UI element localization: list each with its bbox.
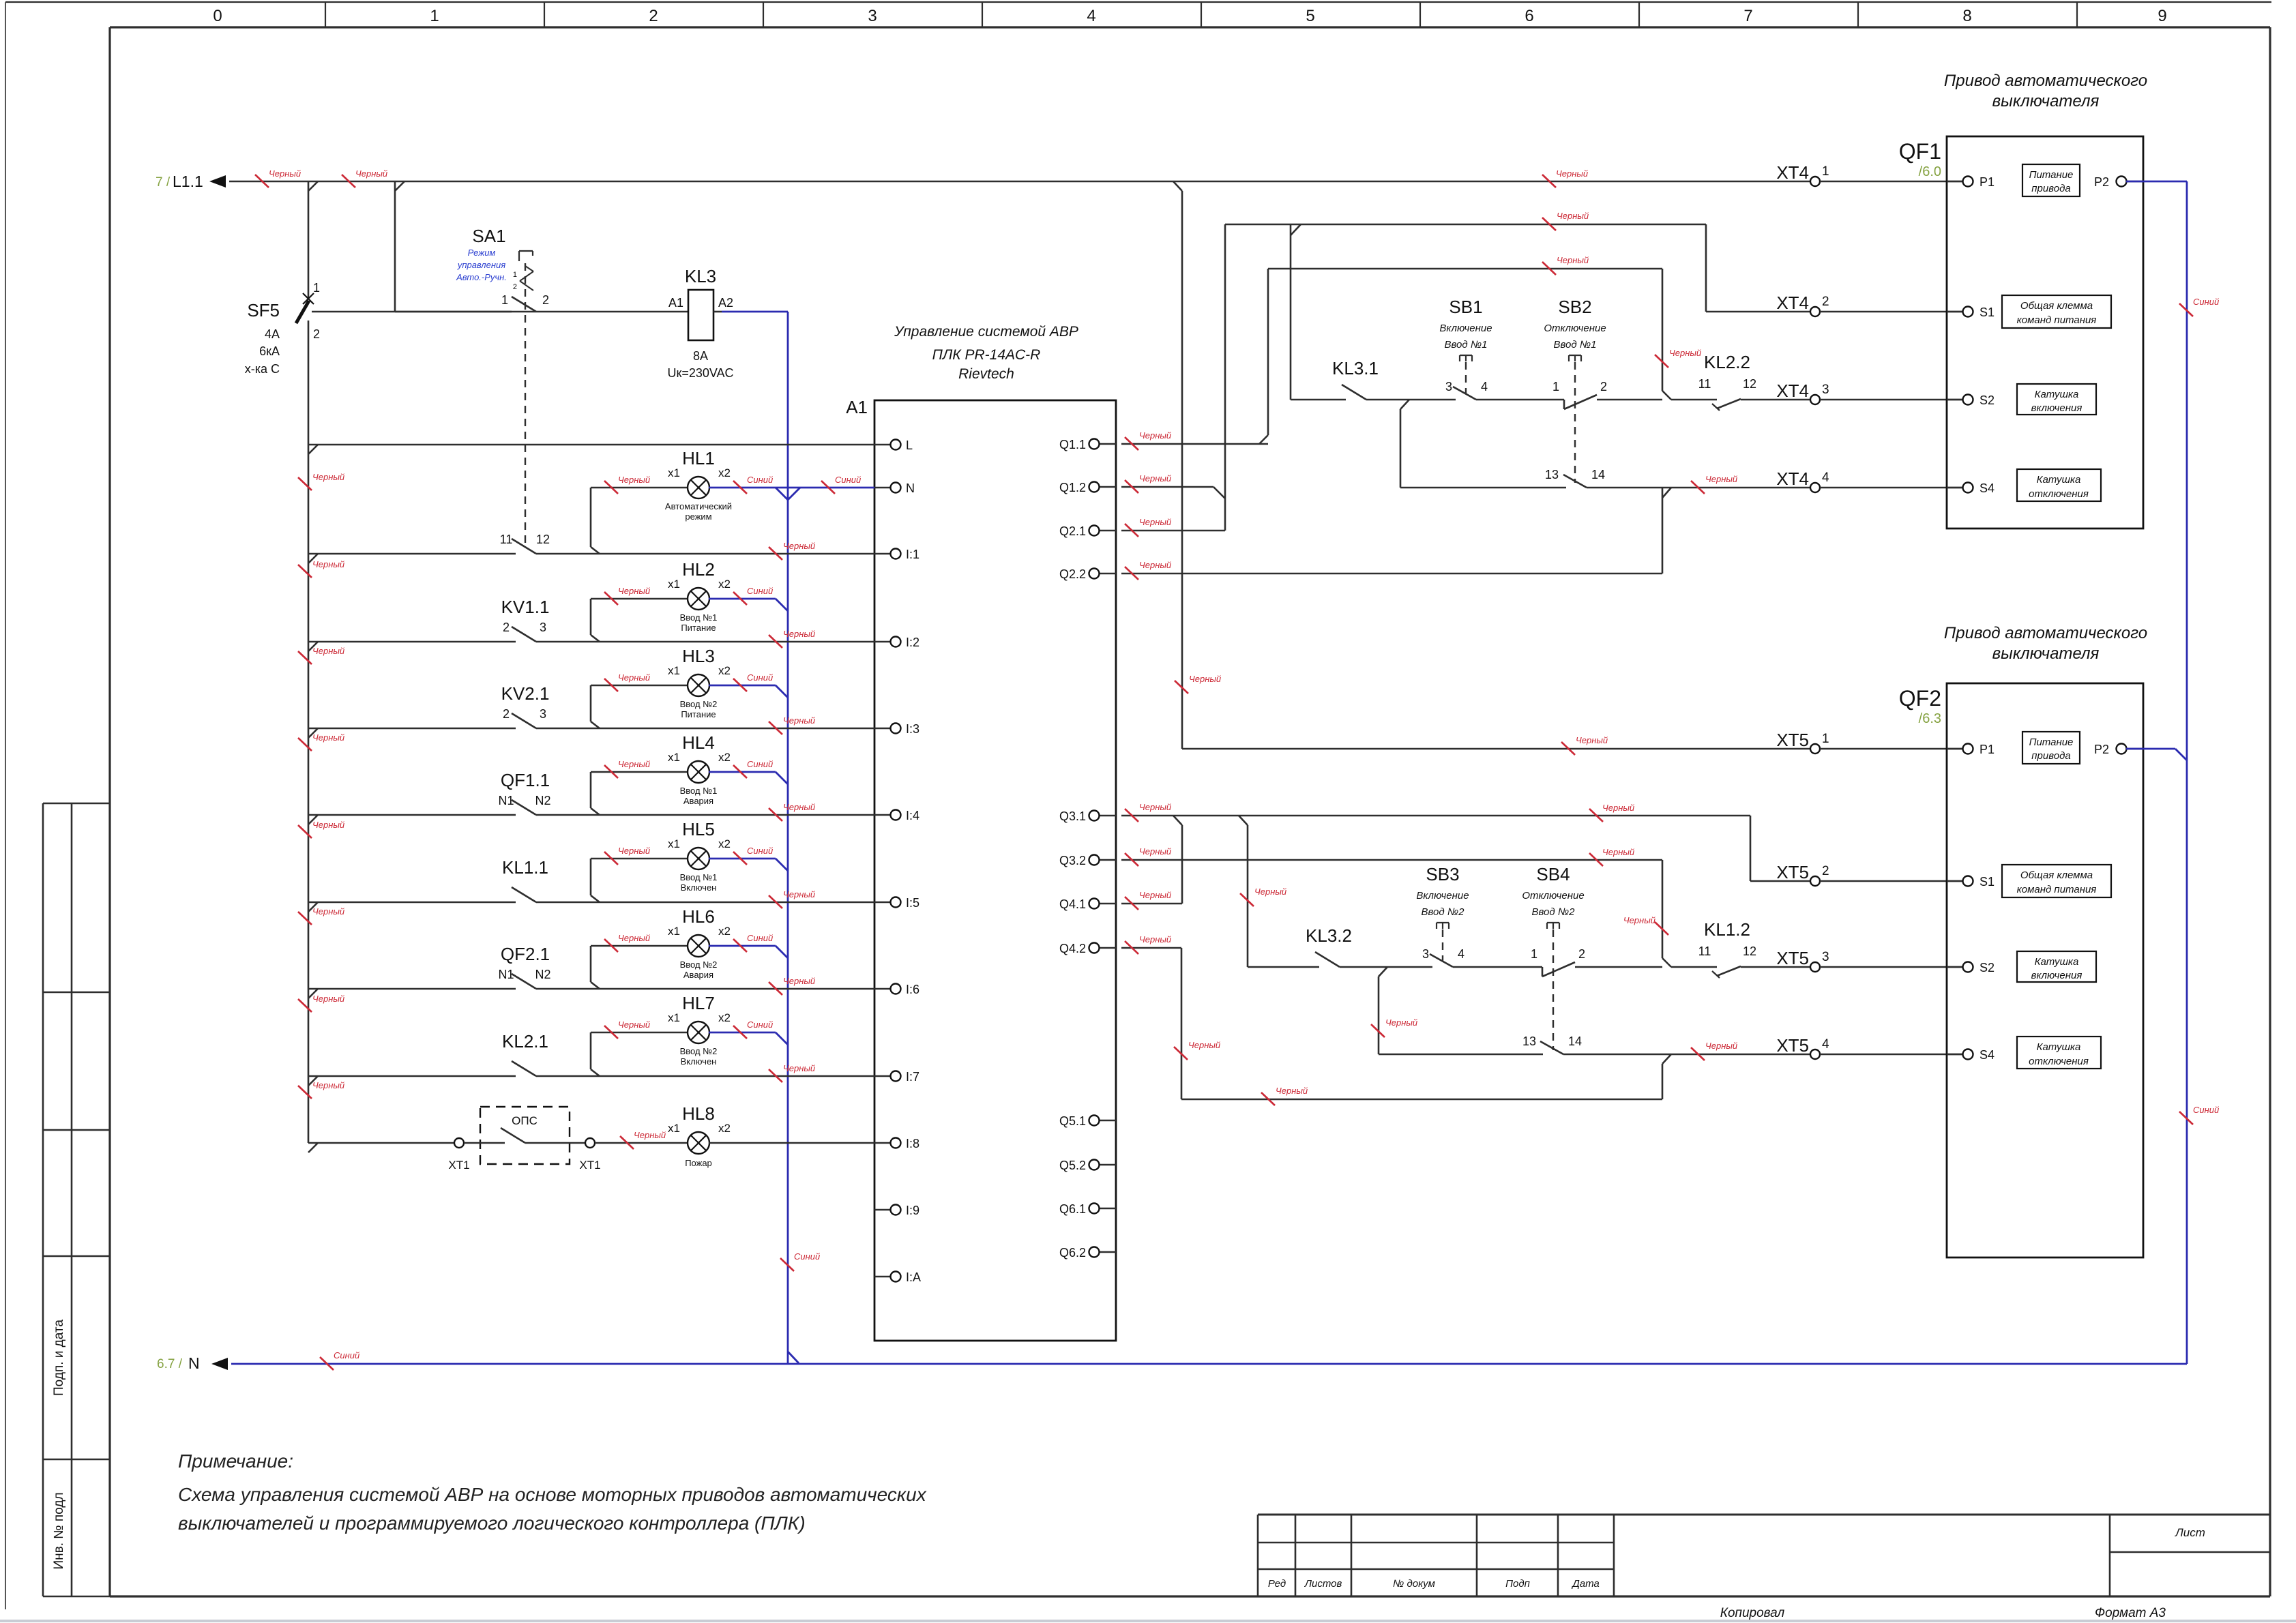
svg-text:KL1.2: KL1.2 xyxy=(1704,919,1750,940)
terminal XT5 pin 4 xyxy=(1810,1049,1820,1059)
svg-text:SF5: SF5 xyxy=(247,300,280,321)
relay contact KL2.2 xyxy=(1671,352,1810,411)
svg-text:x1: x1 xyxy=(668,751,680,764)
svg-text:Черный: Черный xyxy=(1139,934,1171,944)
svg-text:2: 2 xyxy=(1822,295,1829,309)
svg-text:x2: x2 xyxy=(718,751,731,764)
title block header labels xyxy=(1268,1578,1600,1590)
svg-text:XT5: XT5 xyxy=(1776,730,1809,750)
svg-text:Ввод №2: Ввод №2 xyxy=(1532,906,1576,918)
terminal XT5 pin 1 xyxy=(1810,744,1820,754)
svg-text:Черный: Черный xyxy=(783,976,815,986)
indicator lamp HL3 xyxy=(591,646,731,728)
svg-text:Черный: Черный xyxy=(618,672,650,683)
svg-text:Rievtech: Rievtech xyxy=(958,366,1014,382)
wire label Синий after HL3 xyxy=(733,672,773,691)
wire label Черный before HL8 xyxy=(620,1130,666,1149)
wire branch x1829 down to KL3.2 row xyxy=(1248,825,1319,967)
switch SA1 mode selector xyxy=(312,226,549,312)
svg-text:Примечание:: Примечание: xyxy=(178,1450,293,1472)
svg-text:Черный: Черный xyxy=(1139,560,1171,570)
contact QF1.1 row I:4 xyxy=(308,770,874,824)
svg-text:Лист: Лист xyxy=(2175,1526,2205,1539)
svg-text:отключения: отключения xyxy=(2029,1056,2089,1067)
svg-text:x2: x2 xyxy=(718,664,731,677)
svg-text:Синий: Синий xyxy=(835,475,861,485)
push button SB4 aux contact 13-14 xyxy=(1522,1034,1810,1054)
push button SB1 Включение Ввод №1 xyxy=(1439,297,1564,400)
svg-text:Катушка: Катушка xyxy=(2037,1041,2081,1053)
svg-text:Режим: Режим xyxy=(468,248,496,258)
wire blue HL5 to N bus xyxy=(709,859,788,871)
indicator lamp HL7 xyxy=(591,993,731,1076)
wire label Синий after HL2 xyxy=(733,586,773,605)
svg-text:Синий: Синий xyxy=(747,933,773,943)
push button SB2 aux contact 13-14 xyxy=(1545,468,1810,488)
wire label Синий on N return xyxy=(320,1350,359,1370)
wire blue HL7 to N bus xyxy=(709,1032,788,1045)
svg-text:2: 2 xyxy=(313,327,320,341)
svg-text:HL4: HL4 xyxy=(682,732,715,753)
svg-text:QF1: QF1 xyxy=(1899,139,1941,164)
svg-text:Черный: Черный xyxy=(618,586,650,596)
svg-text:Питание: Питание xyxy=(2029,169,2074,181)
wire label Черный row I:2 to pin xyxy=(769,629,815,648)
svg-text:Черный: Черный xyxy=(618,759,650,769)
svg-text:Синий: Синий xyxy=(747,475,773,485)
svg-text:Черный: Черный xyxy=(618,846,650,856)
svg-text:XT1: XT1 xyxy=(579,1159,600,1172)
title block table xyxy=(1258,1515,2270,1596)
PLC A1 title text xyxy=(894,324,1078,382)
wire label Черный before HL3 xyxy=(604,672,650,691)
svg-text:Черный: Черный xyxy=(618,1019,650,1030)
QF1 box Питание привода xyxy=(2022,164,2080,196)
svg-text:Листов: Листов xyxy=(1304,1578,1342,1590)
terminal XT5 pin 3 xyxy=(1810,962,1820,972)
svg-text:команд питания: команд питания xyxy=(2017,884,2097,895)
wire label Черный on XT5_2 row xyxy=(1589,803,1634,822)
svg-text:Общая клемма: Общая клемма xyxy=(2020,869,2093,881)
wire label Черный on left bus y1347 xyxy=(298,906,344,925)
svg-text:Черный: Черный xyxy=(1556,168,1588,179)
svg-text:x2: x2 xyxy=(718,466,731,479)
terminal XT4 pin 1 xyxy=(1810,177,1820,186)
svg-text:Общая клемма: Общая клемма xyxy=(2020,300,2093,312)
svg-text:Включен: Включен xyxy=(681,1056,717,1067)
svg-text:3: 3 xyxy=(540,621,546,634)
svg-text:SA1: SA1 xyxy=(472,226,505,246)
svg-text:Ввод №2: Ввод №2 xyxy=(680,699,718,709)
svg-text:I:2: I:2 xyxy=(906,636,919,649)
svg-text:команд питания: команд питания xyxy=(2017,314,2097,326)
wire blue HL4 to N bus xyxy=(709,772,788,784)
svg-text:x2: x2 xyxy=(718,578,731,591)
svg-text:I:4: I:4 xyxy=(906,809,919,822)
svg-text:Черный: Черный xyxy=(1139,890,1171,900)
svg-text:1: 1 xyxy=(1822,732,1829,746)
note Примечание xyxy=(178,1450,927,1534)
svg-text:Черный: Черный xyxy=(783,802,815,812)
svg-text:Ввод №1: Ввод №1 xyxy=(1554,339,1597,351)
wire label Черный row I:4 to pin xyxy=(769,802,815,821)
svg-text:Q6.2: Q6.2 xyxy=(1059,1246,1086,1260)
svg-text:N: N xyxy=(188,1354,200,1372)
svg-text:Катушка: Катушка xyxy=(2037,474,2081,486)
svg-text:HL6: HL6 xyxy=(682,906,715,927)
svg-text:№ докум: № докум xyxy=(1393,1578,1435,1590)
wire label Черный before HL6 xyxy=(604,933,650,952)
svg-text:N2: N2 xyxy=(535,794,550,807)
svg-text:7: 7 xyxy=(1743,7,1752,25)
svg-text:KL2.2: KL2.2 xyxy=(1704,352,1750,372)
svg-text:Черный: Черный xyxy=(783,889,815,899)
wire Q1.2 Q2.1 to XT4_2 net xyxy=(1121,224,1810,531)
svg-text:Привод автоматического: Привод автоматического xyxy=(1944,624,2147,642)
svg-text:I:6: I:6 xyxy=(906,983,919,996)
svg-text:2: 2 xyxy=(649,7,658,25)
svg-text:Авария: Авария xyxy=(683,970,713,980)
svg-text:N1: N1 xyxy=(498,794,514,807)
indicator lamp HL4 xyxy=(591,732,731,815)
svg-text:Катушка: Катушка xyxy=(2035,956,2079,968)
svg-text:/6.3: /6.3 xyxy=(1919,711,1941,726)
wire N return bottom blue xyxy=(231,1363,2187,1365)
contact KL1.1 row I:5 xyxy=(308,857,874,912)
terminal XT1 left xyxy=(308,1138,470,1172)
wire label Черный on L1.1 wire x2272 xyxy=(1542,175,1556,188)
wire blue HL1 to PLC N pin xyxy=(709,488,874,500)
indicator lamp HL8 xyxy=(595,1103,874,1168)
QF2 box Катушка отключения QF2 xyxy=(2017,1037,2101,1069)
svg-text:Черный: Черный xyxy=(1139,473,1171,483)
wire SA1 branch vertical x579 xyxy=(394,181,396,312)
wire label Черный row I:7 to pin xyxy=(769,1063,815,1082)
dashed link SA1 xyxy=(525,263,526,544)
push button SB2 Отключение Ввод №1 xyxy=(1544,297,1662,483)
svg-text:KL3.1: KL3.1 xyxy=(1332,358,1379,378)
QF2 box Катушка включения QF2 xyxy=(2017,951,2096,982)
contact QF2.1 row I:6 xyxy=(308,944,874,998)
wire label Черный on y329 wire xyxy=(1542,211,1589,230)
svg-text:Авария: Авария xyxy=(683,796,713,806)
svg-text:SB2: SB2 xyxy=(1558,297,1591,317)
svg-text:6кА: 6кА xyxy=(259,344,280,358)
svg-text:Черный: Черный xyxy=(312,472,344,482)
QF2 box Общая клемма команд питания xyxy=(2002,865,2111,897)
svg-text:выключателей и программируемог: выключателей и программируемого логическ… xyxy=(178,1513,806,1534)
svg-text:1: 1 xyxy=(430,7,439,25)
svg-text:4А: 4А xyxy=(265,327,280,341)
svg-text:4: 4 xyxy=(1822,1037,1829,1052)
QF1 pin S1 xyxy=(1947,311,1973,312)
svg-text:2: 2 xyxy=(503,707,510,721)
svg-text:Черный: Черный xyxy=(1557,255,1589,265)
svg-text:P1: P1 xyxy=(1979,175,1995,189)
svg-text:S4: S4 xyxy=(1979,481,1995,495)
svg-text:7 /: 7 / xyxy=(156,175,171,190)
svg-text:4: 4 xyxy=(1481,380,1488,393)
wire label Черный on XT5_4 row xyxy=(1691,1041,1737,1060)
svg-text:Питание: Питание xyxy=(2029,736,2074,748)
svg-text:P2: P2 xyxy=(2094,743,2109,756)
wire label Черный on Q3.1 wire xyxy=(1125,802,1171,822)
svg-text:привода: привода xyxy=(2031,183,2070,194)
svg-text:Авто.-Ручн.: Авто.-Ручн. xyxy=(456,272,507,282)
svg-text:Дата: Дата xyxy=(1571,1578,1600,1590)
wire label Черный on left bus y1602 xyxy=(298,1080,344,1099)
svg-text:A2: A2 xyxy=(718,296,733,310)
wire label Черный on L1.1 wire x512 xyxy=(342,175,355,188)
wire blue QF1 P2 down right margin xyxy=(2126,181,2187,1364)
QF1 pin P1 xyxy=(1947,181,1973,182)
svg-text:режим: режим xyxy=(685,511,711,522)
svg-text:включения: включения xyxy=(2031,402,2082,414)
wire label Черный on XT5_1 row xyxy=(1561,735,1608,755)
wire label Черный on Q4.2 wire xyxy=(1125,934,1171,954)
contact KV2.1 row I:3 xyxy=(308,683,874,738)
svg-text:SB1: SB1 xyxy=(1449,297,1482,317)
svg-text:Черный: Черный xyxy=(783,541,815,551)
svg-text:выключателя: выключателя xyxy=(1992,644,2100,663)
wires XT4 to QF1 xyxy=(1820,181,1963,488)
svg-text:Отключение: Отключение xyxy=(1544,323,1606,334)
svg-text:x2: x2 xyxy=(718,925,731,938)
svg-text:Синий: Синий xyxy=(747,672,773,683)
contact SA1 aux row I:1 xyxy=(308,533,874,563)
wire label Черный on left bus y710 xyxy=(298,472,344,490)
svg-text:Q6.1: Q6.1 xyxy=(1059,1202,1086,1216)
svg-text:Q3.1: Q3.1 xyxy=(1059,809,1086,823)
svg-text:I:8: I:8 xyxy=(906,1137,919,1150)
relay contact KL3.1 xyxy=(1332,358,1456,400)
svg-text:I:A: I:A xyxy=(906,1270,921,1284)
PLC A1 block outline xyxy=(846,397,1116,1341)
svg-text:2: 2 xyxy=(503,621,510,634)
svg-text:Черный: Черный xyxy=(783,715,815,726)
svg-text:12: 12 xyxy=(1743,944,1756,958)
wire label Черный on left bus y1092 xyxy=(298,732,344,751)
svg-text:3: 3 xyxy=(1822,383,1829,397)
QF2 pin P2 xyxy=(2116,748,2143,749)
svg-text:Черный: Черный xyxy=(783,629,815,639)
svg-text:1: 1 xyxy=(313,281,320,295)
svg-text:Черный: Черный xyxy=(312,1080,344,1090)
svg-text:Черный: Черный xyxy=(312,820,344,830)
svg-text:Q3.2: Q3.2 xyxy=(1059,854,1086,867)
svg-text:N2: N2 xyxy=(535,968,550,981)
wire label Черный before HL1 xyxy=(604,475,650,494)
svg-text:SB4: SB4 xyxy=(1536,864,1570,884)
svg-text:13: 13 xyxy=(1545,468,1559,481)
svg-text:Инв. № подл: Инв. № подл xyxy=(52,1492,66,1569)
svg-text:Uк=230VAC: Uк=230VAC xyxy=(667,366,733,380)
svg-text:12: 12 xyxy=(1743,377,1756,391)
QF1 box Общая клемма команд питания xyxy=(2002,295,2111,328)
svg-text:Черный: Черный xyxy=(634,1130,666,1140)
wire label Черный on Q2.2 wire xyxy=(1125,560,1171,580)
wire branch x2053 down to 13-14 row xyxy=(1400,400,1566,488)
wire label Черный on vertical x2437 to KL3.1 row xyxy=(1655,348,1701,368)
svg-text:11: 11 xyxy=(1698,944,1711,958)
sheet reference arrow 6.7 / N xyxy=(157,1354,228,1372)
terminal XT4 pin 4 xyxy=(1810,483,1820,492)
svg-text:x2: x2 xyxy=(718,1011,731,1024)
svg-text:Пожар: Пожар xyxy=(685,1158,712,1168)
wire label Черный on y394 wire xyxy=(1542,255,1589,275)
svg-text:14: 14 xyxy=(1568,1034,1582,1048)
wire label Черный on Q3.2 wire right xyxy=(1589,847,1634,866)
svg-text:2: 2 xyxy=(542,293,549,307)
svg-text:Ввод №1: Ввод №1 xyxy=(1445,339,1488,351)
svg-text:SB3: SB3 xyxy=(1426,864,1459,884)
svg-text:Черный: Черный xyxy=(1602,847,1634,857)
wire label Черный before HL2 xyxy=(604,586,650,605)
wire label Черный on vertical x1732 Q4.2 path xyxy=(1174,1040,1220,1060)
svg-text:HL5: HL5 xyxy=(682,819,715,839)
svg-text:1: 1 xyxy=(1552,380,1559,393)
svg-text:1: 1 xyxy=(1822,164,1829,179)
wire Q4.2 to XT5_4 row xyxy=(1121,948,1671,1099)
svg-text:S1: S1 xyxy=(1979,875,1995,889)
svg-text:Q4.2: Q4.2 xyxy=(1059,942,1086,955)
QF1 box Катушка отключения xyxy=(2017,469,2101,501)
svg-text:x1: x1 xyxy=(668,1011,680,1024)
terminal XT5 pin 2 xyxy=(1810,876,1820,886)
svg-text:Включен: Включен xyxy=(681,882,717,893)
ruler column numbers 0-9 xyxy=(213,7,2166,25)
wire label Черный on Q1.2 wire xyxy=(1125,473,1171,493)
svg-text:S1: S1 xyxy=(1979,306,1995,319)
wire label Черный on vertical x1733 xyxy=(1175,674,1221,694)
wire label Синий right margin bottom xyxy=(2179,1105,2219,1125)
svg-text:x1: x1 xyxy=(668,664,680,677)
svg-text:Черный: Черный xyxy=(269,168,301,179)
svg-text:Включение: Включение xyxy=(1416,890,1469,902)
svg-text:12: 12 xyxy=(536,533,550,546)
svg-text:N1: N1 xyxy=(498,968,514,981)
indicator lamp HL6 xyxy=(591,906,731,989)
svg-text:Черный: Черный xyxy=(1254,887,1286,897)
wire label Черный before HL5 xyxy=(604,846,650,865)
svg-text:1: 1 xyxy=(513,271,517,279)
wire branch x1892 down to KL3.1 row xyxy=(1291,224,1346,400)
svg-text:Черный: Черный xyxy=(312,559,344,569)
push button SB3 Включение Ввод №2 xyxy=(1416,864,1542,967)
relay coil KL3 xyxy=(536,266,734,380)
wire label Черный on left bus y965 xyxy=(298,646,344,664)
svg-text:0: 0 xyxy=(213,7,222,25)
wire blue HL6 to N bus xyxy=(709,946,788,958)
svg-text:XT4: XT4 xyxy=(1776,162,1809,183)
wire label Черный on Q3.2 wire xyxy=(1125,846,1171,866)
wire label Черный on XT4_4 row xyxy=(1691,474,1737,494)
wire label Черный on Q4.1 wire xyxy=(1125,890,1171,910)
svg-text:x1: x1 xyxy=(668,837,680,850)
svg-text:P2: P2 xyxy=(2094,175,2109,189)
left frame column boxes xyxy=(43,803,110,1596)
svg-text:P1: P1 xyxy=(1979,743,1995,756)
svg-text:Черный: Черный xyxy=(312,994,344,1004)
terminal XT4 pin 3 xyxy=(1810,395,1820,404)
svg-text:Черный: Черный xyxy=(1139,846,1171,857)
svg-text:Ввод №1: Ввод №1 xyxy=(680,612,718,623)
QF2 pin S1 xyxy=(1947,880,1973,882)
svg-text:6: 6 xyxy=(1525,7,1533,25)
svg-text:Отключение: Отключение xyxy=(1522,890,1584,902)
svg-text:Подп: Подп xyxy=(1505,1578,1530,1590)
wire label Черный on Q1.1 wire xyxy=(1125,430,1171,450)
contact KL2.1 row I:7 xyxy=(308,1031,874,1086)
svg-text:QF2: QF2 xyxy=(1899,686,1941,711)
wire blue HL2 to N bus xyxy=(709,599,788,611)
svg-text:3: 3 xyxy=(540,707,546,721)
svg-text:I:5: I:5 xyxy=(906,896,919,910)
relay contact KL3.2 xyxy=(1306,925,1432,967)
svg-text:Автоматический: Автоматический xyxy=(665,501,732,511)
wire label Черный before HL7 xyxy=(604,1019,650,1039)
svg-text:Синий: Синий xyxy=(747,759,773,769)
wire L1.1 top bus y=266 xyxy=(229,181,1810,191)
svg-text:L1.1: L1.1 xyxy=(173,173,203,190)
svg-text:Черный: Черный xyxy=(618,475,650,485)
svg-text:3: 3 xyxy=(1422,947,1429,961)
svg-text:Черный: Черный xyxy=(1623,915,1655,925)
svg-text:1: 1 xyxy=(1531,947,1537,961)
svg-text:Q5.1: Q5.1 xyxy=(1059,1114,1086,1128)
svg-text:KL3: KL3 xyxy=(685,266,716,286)
svg-text:Черный: Черный xyxy=(1139,517,1171,527)
svg-text:управления: управления xyxy=(457,260,505,270)
svg-text:Q2.2: Q2.2 xyxy=(1059,567,1086,581)
svg-text:2: 2 xyxy=(1578,947,1585,961)
indicator lamp HL5 xyxy=(591,819,731,902)
svg-text:HL1: HL1 xyxy=(682,448,715,468)
relay contact KL1.2 xyxy=(1671,919,1810,978)
svg-text:Формат А3: Формат А3 xyxy=(2095,1606,2166,1620)
sheet reference arrow 7 / L1.1 xyxy=(156,173,226,190)
svg-text:Копировал: Копировал xyxy=(1720,1606,1785,1620)
push button SB4 Отключение Ввод №2 xyxy=(1522,864,1662,1050)
svg-text:I:3: I:3 xyxy=(906,722,919,736)
terminal XT4 pin 2 xyxy=(1810,307,1820,316)
svg-text:XT5: XT5 xyxy=(1776,948,1809,968)
svg-text:QF2.1: QF2.1 xyxy=(501,944,550,964)
svg-text:KL1.1: KL1.1 xyxy=(502,857,548,878)
svg-text:включения: включения xyxy=(2031,970,2082,981)
svg-text:9: 9 xyxy=(2158,7,2166,25)
svg-text:х-ка С: х-ка С xyxy=(245,362,280,376)
svg-text:KV1.1: KV1.1 xyxy=(501,597,550,617)
svg-text:Синий: Синий xyxy=(794,1251,820,1262)
svg-text:11: 11 xyxy=(1698,377,1711,391)
wire label Черный on left bus y1475 xyxy=(298,994,344,1012)
wire blue QF2 P2 join right margin xyxy=(2126,749,2187,760)
svg-text:x2: x2 xyxy=(718,1122,731,1135)
svg-text:KL3.2: KL3.2 xyxy=(1306,925,1352,946)
svg-text:Черный: Черный xyxy=(1188,1040,1220,1050)
wire label Синий after HL7 xyxy=(733,1019,773,1039)
QF2 pin S2 xyxy=(1947,966,1973,968)
svg-text:3: 3 xyxy=(1822,950,1829,964)
svg-text:/6.0: /6.0 xyxy=(1919,164,1941,179)
svg-text:Ввод №1: Ввод №1 xyxy=(680,786,718,796)
svg-text:отключения: отключения xyxy=(2029,488,2089,500)
svg-text:XT5: XT5 xyxy=(1776,1035,1809,1056)
svg-text:L: L xyxy=(906,438,913,452)
wire label Синий after HL5 xyxy=(733,846,773,865)
wire label Синий at N pin xyxy=(821,475,861,494)
